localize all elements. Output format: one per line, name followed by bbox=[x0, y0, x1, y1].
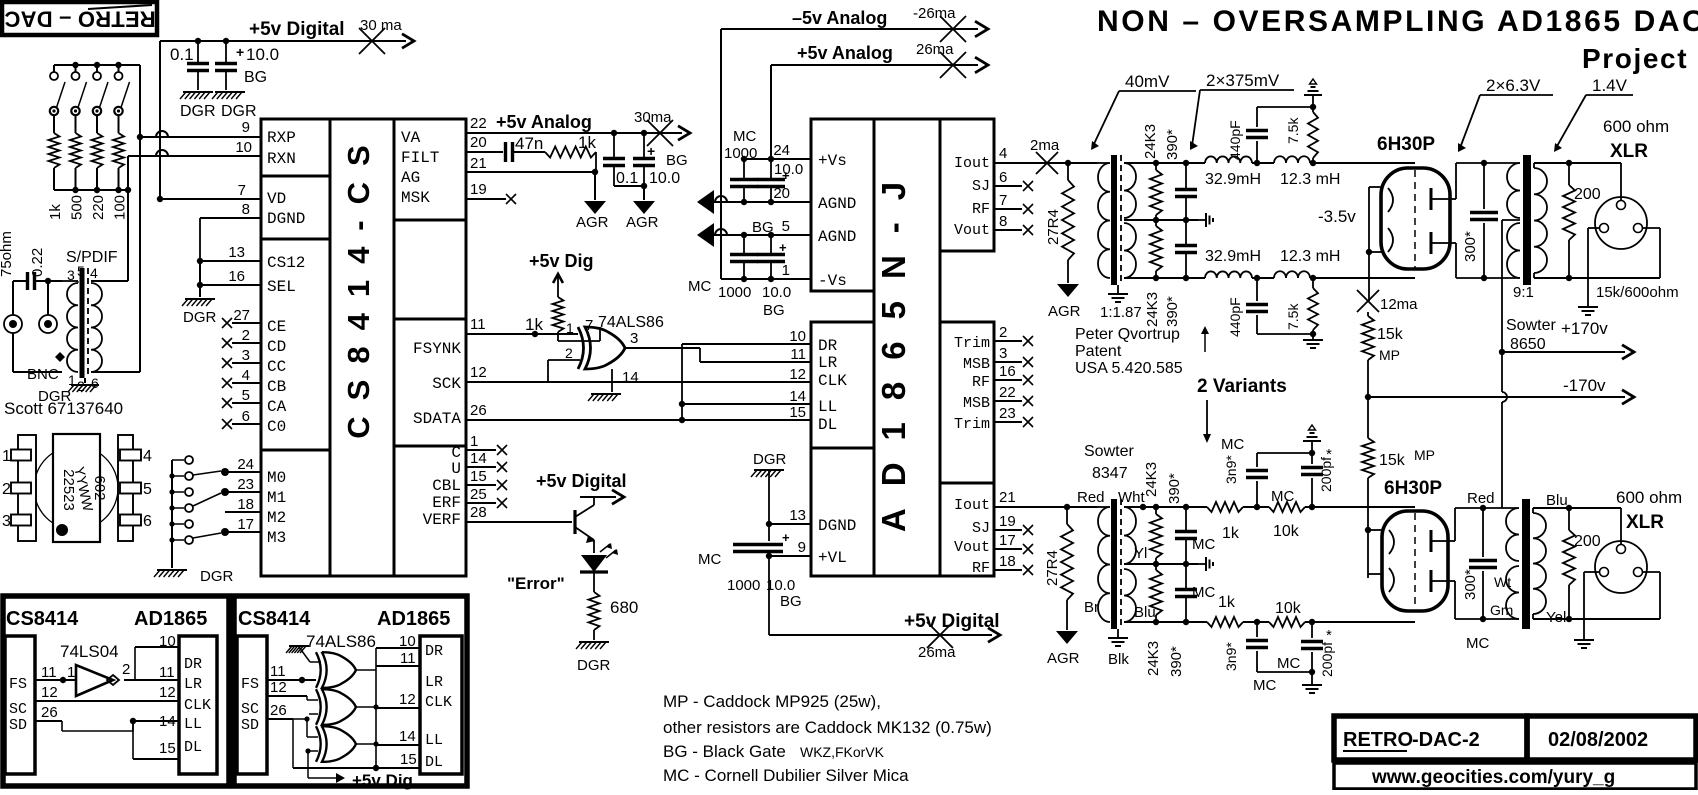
wire T4 sec top to XLR bbox=[1533, 505, 1621, 511]
logo RETRO-DAC (rotated) bbox=[2, 2, 157, 35]
svg-text:VA: VA bbox=[401, 129, 421, 147]
svg-text:BG: BG bbox=[244, 69, 267, 86]
IC U4 label MSB bbox=[963, 356, 990, 373]
net -170v bbox=[1365, 376, 1634, 404]
svg-text:32.9mH: 32.9mH bbox=[1205, 248, 1261, 265]
svg-text:1.4V: 1.4V bbox=[1592, 76, 1628, 95]
svg-text:MC: MC bbox=[1221, 436, 1244, 453]
svg-text:BNC: BNC bbox=[27, 366, 59, 383]
svg-text:14: 14 bbox=[470, 450, 487, 467]
ground DGR (CS12/SEL) bbox=[182, 299, 217, 326]
IC U1 label CA bbox=[267, 398, 287, 416]
svg-text:74LS04: 74LS04 bbox=[60, 642, 119, 661]
IC U4 label LR bbox=[818, 354, 838, 372]
wire XLR pin1 gnd bbox=[1588, 228, 1599, 301]
svg-text:13: 13 bbox=[789, 507, 806, 524]
svg-text:75ohm: 75ohm bbox=[0, 231, 15, 277]
svg-text:Patent: Patent bbox=[1075, 343, 1122, 360]
svg-text:24K3: 24K3 bbox=[1144, 292, 1161, 327]
IC U4 label RF bbox=[972, 374, 990, 391]
svg-text:23: 23 bbox=[999, 405, 1016, 422]
variant2 gnd hatch bbox=[286, 646, 321, 662]
svg-text:5: 5 bbox=[782, 218, 790, 235]
IC U4 pin 14 label bbox=[789, 388, 806, 405]
IC U4 AD1865N-J name bbox=[874, 119, 940, 576]
svg-text:12: 12 bbox=[159, 684, 176, 701]
switch contact bbox=[172, 488, 193, 496]
svg-text:MC: MC bbox=[688, 278, 711, 295]
variant2 gate2 in2 wire bbox=[307, 700, 318, 714]
svg-text:SC: SC bbox=[241, 701, 259, 718]
IC U2 circle bbox=[34, 446, 118, 530]
title NON-OVERSAMPLING AD1865 DAC bbox=[1097, 5, 1698, 38]
svg-text:10k: 10k bbox=[1273, 523, 1300, 540]
svg-text:BG: BG bbox=[752, 219, 774, 236]
svg-text:M2: M2 bbox=[267, 509, 286, 527]
label Blu Yel bbox=[1546, 492, 1568, 626]
resistor 27R4 (bottom) bbox=[1044, 507, 1073, 630]
IC U4 box +Vs/-Vs bbox=[811, 119, 874, 291]
wire bank bottom rail bbox=[54, 187, 131, 193]
IC U1 label FSYNK bbox=[413, 340, 461, 358]
IC U1 label VERF bbox=[423, 511, 461, 529]
wire T1 sec mid bbox=[1124, 217, 1198, 223]
polarity dot bbox=[55, 352, 65, 362]
svg-text:15: 15 bbox=[789, 404, 806, 421]
svg-text:SC: SC bbox=[9, 701, 27, 718]
IC U1 pin 20 FILT wire bbox=[466, 134, 503, 152]
wire xor out to LR bbox=[700, 348, 812, 362]
svg-text:+: + bbox=[236, 44, 244, 60]
inductor 12.3mH (bot) bbox=[1274, 248, 1340, 278]
transformer input Scott (primary) bbox=[62, 281, 78, 372]
svg-text:19: 19 bbox=[999, 513, 1016, 530]
svg-text:21: 21 bbox=[999, 489, 1016, 506]
wire bank to RXP bbox=[137, 65, 143, 140]
IC U4 label Vout top bbox=[954, 222, 990, 239]
svg-text:32.9mH: 32.9mH bbox=[1205, 171, 1261, 188]
net +170v bbox=[1499, 319, 1634, 359]
IC U1 pin 2 CD stub bbox=[222, 327, 261, 348]
resistor 24K3 (b-lower) bbox=[1145, 564, 1162, 676]
pin labels 1 2 6 bbox=[68, 372, 99, 394]
wire Iout21 to T3 bbox=[1067, 506, 1097, 508]
IC U4 label LL bbox=[818, 398, 837, 416]
svg-text:10: 10 bbox=[159, 633, 176, 650]
svg-text:U: U bbox=[451, 460, 461, 478]
svg-text:8: 8 bbox=[242, 201, 250, 218]
svg-text:3: 3 bbox=[67, 267, 75, 283]
IC U4 pin 11 label bbox=[790, 346, 806, 363]
svg-text:02/08/2002: 02/08/2002 bbox=[1548, 729, 1648, 751]
IC U4 pin 7 stub bbox=[994, 192, 1033, 214]
variant box 2 frame bbox=[234, 596, 467, 786]
svg-text:10.0: 10.0 bbox=[649, 170, 680, 187]
svg-text:CLK: CLK bbox=[818, 372, 847, 390]
resistor 7.5k (bot) bbox=[1285, 275, 1318, 334]
IC U4 label +VL bbox=[818, 549, 847, 567]
IC U4 pin 24 +Vs wire bbox=[741, 142, 811, 162]
IC U4 box DGND/+VL bbox=[811, 448, 874, 576]
IC U4 pin 21 Iout wire bbox=[994, 489, 1070, 510]
connector XLR top bbox=[1595, 197, 1647, 249]
IC U4 label RF top bbox=[972, 201, 990, 218]
capacitor MC 1000 (-Vs pair) bbox=[730, 235, 758, 279]
label Red (b) bbox=[1467, 490, 1495, 507]
svg-text:+5v Dig: +5v Dig bbox=[352, 771, 413, 790]
svg-text:Project: Project bbox=[1582, 43, 1688, 74]
wire to DR bbox=[682, 343, 812, 345]
svg-text:5: 5 bbox=[143, 481, 152, 498]
xor input 2 bbox=[548, 345, 580, 382]
wire T3 sec bottom bbox=[1124, 619, 1207, 625]
IC U4 pin 12 label bbox=[789, 366, 806, 383]
svg-text:other resistors are Caddock MK: other resistors are Caddock MK132 (0.75w… bbox=[663, 718, 992, 737]
variant1 DR wire bbox=[135, 633, 179, 680]
svg-text:5: 5 bbox=[242, 387, 250, 404]
wire secondary bottom to RXN bbox=[91, 137, 140, 372]
wire 1k to AG bbox=[595, 152, 597, 172]
IC U4 pin 18 stub bbox=[994, 553, 1033, 575]
resistor 15k MP (bottom) bbox=[1362, 397, 1435, 530]
IC U4 box Iout/SJ/RF/Vout top bbox=[940, 119, 994, 251]
svg-text:9:1: 9:1 bbox=[1513, 284, 1534, 301]
svg-text:3: 3 bbox=[630, 330, 638, 347]
IC U1 label VD bbox=[267, 190, 286, 208]
xor input 1 bbox=[566, 320, 574, 336]
svg-text:MC - Cornell Dubilier Silver M: MC - Cornell Dubilier Silver Mica bbox=[663, 766, 909, 785]
capacitor MC 1000 (+Vs pair) bbox=[724, 128, 758, 202]
IC U1 pin 11 FSYNK wire bbox=[466, 316, 578, 337]
svg-text:1000: 1000 bbox=[727, 577, 760, 594]
IC U2 body bbox=[53, 434, 100, 542]
svg-text:Vout: Vout bbox=[954, 539, 990, 556]
svg-text:390*: 390* bbox=[1168, 646, 1185, 677]
ground (xor) bbox=[588, 394, 621, 401]
svg-text:DL: DL bbox=[818, 416, 837, 434]
transformer T3 core bbox=[1114, 499, 1121, 629]
svg-text:+Vs: +Vs bbox=[818, 152, 847, 170]
svg-text:–5v Analog: –5v Analog bbox=[792, 8, 887, 28]
resistor 220 termination bbox=[90, 65, 108, 220]
IC U4 pin 9 +VL wire bbox=[766, 539, 811, 559]
svg-text:LL: LL bbox=[184, 716, 202, 733]
svg-text:3n9*: 3n9* bbox=[1223, 455, 1239, 484]
svg-text:DR: DR bbox=[425, 643, 443, 660]
svg-text:24K3: 24K3 bbox=[1145, 641, 1162, 676]
svg-text:2: 2 bbox=[565, 345, 573, 361]
resistor 10k (b-bot) bbox=[1254, 600, 1312, 627]
transformer T4 core bbox=[1522, 499, 1530, 629]
variant1 label AD1865 bbox=[134, 608, 207, 630]
svg-text:23: 23 bbox=[237, 476, 254, 493]
title Project bbox=[1582, 43, 1688, 74]
svg-text:17: 17 bbox=[237, 516, 254, 533]
svg-text:2ma: 2ma bbox=[1030, 137, 1060, 154]
IC U1 left box dividers bbox=[261, 176, 330, 450]
svg-text:2×6.3V: 2×6.3V bbox=[1486, 76, 1541, 95]
variant2 pin11 wire FS bbox=[267, 663, 316, 683]
wire center tap to ground bbox=[84, 378, 86, 383]
svg-text:DR: DR bbox=[818, 337, 838, 355]
resistor 1k termination bbox=[47, 65, 65, 220]
svg-text:4: 4 bbox=[242, 367, 250, 384]
svg-text:+: + bbox=[782, 530, 790, 545]
svg-text:ERF: ERF bbox=[432, 494, 461, 512]
svg-text:300*: 300* bbox=[1462, 569, 1479, 600]
IC U1 label RXP bbox=[267, 129, 296, 147]
svg-text:1: 1 bbox=[782, 262, 790, 279]
svg-text:2 Variants: 2 Variants bbox=[1197, 376, 1287, 397]
svg-text:FS: FS bbox=[9, 676, 27, 693]
svg-text:RETRO – DAC: RETRO – DAC bbox=[4, 7, 155, 32]
svg-text:24K3: 24K3 bbox=[1143, 462, 1160, 497]
svg-text:440pF: 440pF bbox=[1227, 120, 1243, 160]
svg-text:www.geocities.com/yury_g: www.geocities.com/yury_g bbox=[1371, 767, 1615, 788]
current mark 26ma X bbox=[940, 52, 966, 78]
inductor 12.3mH (top) bbox=[1274, 156, 1340, 188]
wire 3n9-200pf link bottom bbox=[1257, 669, 1315, 675]
resistor 24K3 (lower) bbox=[1144, 220, 1162, 327]
label -3.5v bbox=[1318, 207, 1356, 226]
svg-text:CE: CE bbox=[267, 318, 286, 336]
svg-text:*: * bbox=[1326, 446, 1332, 463]
svg-text:MSK: MSK bbox=[401, 189, 430, 207]
variant2 AD1865 box bbox=[420, 636, 462, 774]
wire V1 plate bottom out bbox=[1446, 243, 1497, 278]
net +5v Analog (right) bbox=[771, 41, 988, 73]
svg-text:CLK: CLK bbox=[425, 694, 452, 711]
resistor 500 termination bbox=[69, 65, 87, 220]
svg-text:11: 11 bbox=[41, 664, 57, 681]
svg-text:22: 22 bbox=[999, 384, 1016, 401]
tube V2 grids bbox=[1389, 530, 1394, 592]
IC U4 box Trim..Trim bbox=[940, 322, 994, 483]
svg-text:18: 18 bbox=[999, 553, 1016, 570]
IC U4 label MSB bbox=[963, 395, 990, 412]
transformer T2 primary upper bbox=[1456, 163, 1520, 218]
svg-text:10: 10 bbox=[789, 328, 806, 345]
svg-text:200pf: 200pf bbox=[1319, 642, 1335, 677]
wire T3 sec top bbox=[1124, 504, 1207, 510]
wire 1k to pin7 bbox=[558, 317, 600, 341]
svg-text:4: 4 bbox=[90, 265, 98, 281]
ground DGR (10.0) bbox=[212, 92, 245, 99]
svg-text:LL: LL bbox=[425, 732, 443, 749]
svg-text:DR: DR bbox=[184, 656, 202, 673]
IC U4 pin 3 stub bbox=[994, 345, 1033, 367]
connector XLR bottom bbox=[1595, 541, 1647, 593]
label Wt Grn (b) bbox=[1490, 574, 1513, 618]
IC U1 pin 3 CC stub bbox=[222, 347, 261, 368]
diode LED Error bbox=[580, 555, 608, 592]
capacitor 3n9* (b-bot) bbox=[1223, 622, 1268, 672]
titleblock RETRO-DAC-2 bbox=[1334, 716, 1527, 760]
svg-text:RF: RF bbox=[972, 560, 990, 577]
svg-text:600 ohm: 600 ohm bbox=[1616, 488, 1682, 507]
svg-text:MSB: MSB bbox=[963, 395, 990, 412]
svg-text:DGR: DGR bbox=[200, 568, 234, 585]
IC U2 index dot bbox=[56, 524, 68, 536]
IC U4 pin 10 label bbox=[789, 328, 806, 345]
wire XLR2 pin2 bbox=[1620, 508, 1622, 544]
svg-text:FILT: FILT bbox=[401, 149, 439, 167]
tube V2 envelope bbox=[1382, 511, 1448, 611]
svg-text:7.5k: 7.5k bbox=[1285, 303, 1301, 330]
IC U4 pin 16 stub bbox=[994, 363, 1033, 385]
svg-text:16: 16 bbox=[999, 363, 1016, 380]
svg-text:Iout: Iout bbox=[954, 497, 990, 514]
svg-text:1000: 1000 bbox=[718, 284, 751, 301]
svg-text:20: 20 bbox=[470, 134, 487, 151]
wire V2 plate bottom out bbox=[1446, 581, 1497, 619]
ground (T3 core) Blk bbox=[1108, 629, 1129, 668]
note MP bbox=[663, 692, 881, 711]
svg-text:+: + bbox=[647, 143, 655, 159]
svg-text:15: 15 bbox=[400, 751, 417, 768]
svg-text:SJ: SJ bbox=[972, 520, 990, 537]
svg-text:7: 7 bbox=[999, 192, 1007, 209]
ground DGR (+VL) bbox=[751, 451, 787, 541]
capacitor 390* (b-lower) bbox=[1168, 564, 1197, 677]
svg-text:22523: 22523 bbox=[60, 469, 77, 511]
variant2 +5v Dig wire bbox=[305, 748, 413, 790]
IC U1 label FILT bbox=[401, 149, 439, 167]
svg-text:AD1865: AD1865 bbox=[377, 608, 450, 630]
svg-text:DGR: DGR bbox=[221, 103, 257, 120]
IC U4 pin 22 stub bbox=[994, 384, 1033, 406]
capacitor 300* MC (bottom) bbox=[1462, 505, 1497, 652]
svg-text:VD: VD bbox=[267, 190, 286, 208]
IC U4 pin 8 stub bbox=[994, 213, 1033, 235]
svg-text:DGR: DGR bbox=[183, 309, 217, 326]
resistor 1k pullup bbox=[525, 297, 564, 334]
svg-text:18: 18 bbox=[237, 496, 254, 513]
svg-text:10k: 10k bbox=[1275, 600, 1302, 617]
variant2 CLK wire bbox=[376, 691, 420, 708]
ground DGR transformer bbox=[68, 385, 99, 392]
svg-text:SCK: SCK bbox=[432, 375, 461, 393]
resistor 200 (bottom xlr) bbox=[1563, 508, 1601, 619]
IC U1 pin 23 M1 stub bbox=[225, 476, 261, 493]
wire V1 plate top out bbox=[1446, 163, 1497, 199]
svg-text:CB: CB bbox=[267, 378, 286, 396]
svg-text:12.3 mH: 12.3 mH bbox=[1280, 248, 1340, 265]
svg-text:27R4: 27R4 bbox=[1045, 209, 1062, 245]
IC U1 pin 8 DGND wire bbox=[200, 201, 261, 261]
IC U2 pin 4 bbox=[120, 448, 152, 465]
wire T1 sec bottom bbox=[1124, 275, 1274, 281]
svg-text:RXN: RXN bbox=[267, 150, 296, 168]
svg-text:Scott 67137640: Scott 67137640 bbox=[4, 399, 123, 418]
svg-text:DL: DL bbox=[184, 739, 202, 756]
IC U2 pin 6 bbox=[120, 513, 152, 530]
IC U4 pin 13 DGND wire bbox=[766, 507, 811, 527]
svg-text:1k: 1k bbox=[47, 204, 64, 220]
svg-text:6H30P: 6H30P bbox=[1384, 478, 1442, 499]
svg-text:26: 26 bbox=[270, 702, 287, 719]
wire V2 plate top out bbox=[1446, 508, 1497, 541]
svg-text:MC: MC bbox=[733, 128, 756, 145]
label Sowter 8347 bbox=[1084, 443, 1134, 482]
wire bus vertical bbox=[681, 344, 683, 420]
svg-text:2: 2 bbox=[2, 481, 11, 498]
svg-text:+VL: +VL bbox=[818, 549, 847, 567]
svg-text:BG: BG bbox=[763, 302, 785, 319]
ground up (200pf top) bbox=[1303, 425, 1321, 453]
svg-text:BG - Black Gate: BG - Black Gate bbox=[663, 742, 786, 761]
svg-text:5: 5 bbox=[77, 263, 85, 279]
IC U1 pin 18 M2 stub bbox=[225, 496, 261, 513]
IC U1 pin 9 RXP wire bbox=[140, 119, 261, 137]
svg-text:USA 5.420.585: USA 5.420.585 bbox=[1075, 360, 1183, 377]
IC U1 pin 12 SCK wire bbox=[466, 364, 812, 382]
svg-text:10: 10 bbox=[399, 633, 416, 650]
variant1 AD1865 box bbox=[179, 636, 217, 774]
wire XLR pin3 bbox=[1569, 228, 1660, 278]
current mark 30ma X (analog) bbox=[647, 120, 673, 146]
svg-text:MC: MC bbox=[1466, 635, 1489, 652]
IC U1 pin 24 M0 stub bbox=[225, 456, 261, 473]
IC U4 label Trim bbox=[954, 416, 990, 433]
svg-text:24K3: 24K3 bbox=[1142, 124, 1159, 159]
transformer T1 secondary upper bbox=[1124, 163, 1136, 218]
IC U1 pin 14 stub bbox=[466, 450, 507, 472]
IC U1 label SDATA bbox=[413, 410, 461, 428]
IC U1 label CB bbox=[267, 378, 286, 396]
svg-text:RXP: RXP bbox=[267, 129, 296, 147]
svg-text:4: 4 bbox=[999, 145, 1007, 162]
svg-text:9: 9 bbox=[242, 119, 250, 136]
svg-text:6: 6 bbox=[242, 408, 250, 425]
svg-text:24: 24 bbox=[237, 456, 254, 473]
capacitor 0.1 (analog) bbox=[603, 130, 638, 187]
svg-text:BG: BG bbox=[780, 593, 802, 610]
transformer T1 secondary lower bbox=[1124, 223, 1136, 278]
svg-text:22: 22 bbox=[470, 115, 487, 132]
titleblock date bbox=[1527, 716, 1696, 760]
svg-text:-26ma: -26ma bbox=[913, 5, 956, 22]
IC U1 label M1 bbox=[267, 489, 286, 507]
svg-text:28: 28 bbox=[470, 504, 487, 521]
svg-text:WKZ,FKorVK: WKZ,FKorVK bbox=[800, 744, 885, 760]
transistor Q1 bbox=[575, 497, 595, 543]
variant1 DL wire bbox=[133, 721, 179, 759]
ground up (7.5k top) bbox=[1304, 79, 1322, 107]
wire bottom row to tube bbox=[1310, 277, 1415, 279]
variant2 label CS8414 bbox=[238, 608, 311, 630]
svg-text:Yl: Yl bbox=[1134, 545, 1147, 562]
wire secondary top to bank bbox=[91, 156, 128, 281]
svg-text:Sowter: Sowter bbox=[1506, 317, 1556, 334]
tube V1 grids bbox=[1388, 188, 1393, 252]
callout 1.4V bbox=[1554, 76, 1633, 152]
svg-text:100: 100 bbox=[112, 195, 129, 220]
label Red Wht bbox=[1077, 489, 1146, 506]
IC U1 CS8414-CS outline bbox=[261, 119, 466, 576]
net +5v Dig bbox=[529, 251, 594, 297]
ground (XLR top) bbox=[1578, 301, 1598, 315]
pin labels 3 5 4 bbox=[67, 263, 98, 283]
variant2 CS8414 box bbox=[237, 636, 267, 774]
IC U4 box DR..DL bbox=[811, 322, 874, 448]
svg-text:Peter Qvortrup: Peter Qvortrup bbox=[1075, 326, 1180, 343]
svg-text:0.22: 0.22 bbox=[29, 248, 46, 277]
svg-text:FS: FS bbox=[241, 676, 259, 693]
svg-text:1: 1 bbox=[2, 448, 11, 465]
tube V1 envelope bbox=[1381, 168, 1450, 269]
IC U1 label U bbox=[451, 460, 461, 478]
